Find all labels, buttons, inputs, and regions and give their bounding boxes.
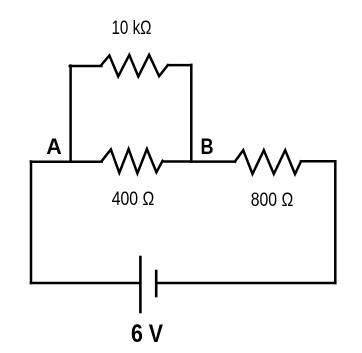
svg-text:6 V: 6 V <box>131 320 163 348</box>
wire: left vertical branch (node A down to bottom rail) <box>30 162 33 284</box>
wire: middle rail from left corner to R2 <box>31 161 102 164</box>
wire: top loop upper-right horizontal <box>168 64 191 67</box>
svg-text:10 kΩ: 10 kΩ <box>112 17 152 39</box>
wire: middle rail from R3 to right corner <box>301 160 335 163</box>
wire: middle rail from node B to R3 <box>191 160 235 163</box>
battery BT1 positive plate (long) <box>139 257 142 312</box>
wire: bottom rail right segment (battery negative plate to right) <box>157 282 336 285</box>
resistor R2 400 Ω <box>102 149 163 173</box>
svg-text:A: A <box>46 134 62 159</box>
wire: top loop right vertical (down to node B) <box>190 65 193 162</box>
resistor R3 800 Ω <box>235 150 301 174</box>
wire: top loop left vertical (node A up to 10k branch) <box>69 66 72 162</box>
wire: top loop upper-left horizontal <box>70 65 102 68</box>
wire: middle rail between R2 and node B <box>163 160 192 163</box>
battery BT1 negative plate (short) <box>155 271 158 296</box>
resistor R1 10 kΩ <box>101 55 168 77</box>
svg-text:B: B <box>201 134 214 159</box>
wire: right vertical branch <box>334 161 337 283</box>
svg-text:800 Ω: 800 Ω <box>251 189 294 211</box>
wire: bottom rail left segment (to battery positive plate) <box>31 282 140 285</box>
svg-text:400 Ω: 400 Ω <box>112 188 155 210</box>
